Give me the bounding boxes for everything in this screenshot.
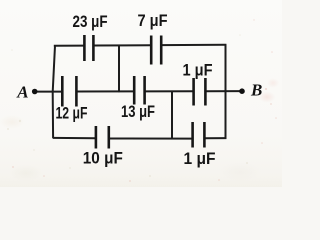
wire middle: 12uF to 13uF <box>77 90 135 92</box>
capacitor C5 1uF middle plates <box>192 78 195 106</box>
wire bottom-right segment <box>204 137 226 139</box>
svg-text:1 μF: 1 μF <box>184 149 216 168</box>
svg-text:23 μF: 23 μF <box>73 12 108 31</box>
svg-text:A: A <box>16 83 28 102</box>
capacitor C3 12uF plates <box>61 76 64 107</box>
wire bottom-middle segment <box>109 138 193 140</box>
svg-text:12 μF: 12 μF <box>56 104 88 123</box>
svg-text:7 μF: 7 μF <box>138 11 168 30</box>
capacitor C2 7uF plates <box>150 36 153 65</box>
svg-text:10 μF: 10 μF <box>83 149 123 168</box>
capacitor C6 10uF plates <box>95 126 98 149</box>
wire middle: 13uF to 1uF <box>145 90 194 92</box>
capacitor C1 23uF plates <box>83 35 86 61</box>
svg-text:1 μF: 1 μF <box>183 61 213 80</box>
wire left vertical <box>53 46 55 139</box>
svg-text:13 μF: 13 μF <box>121 102 155 121</box>
wire junction vertical middle-to-bottom <box>171 91 173 140</box>
wire right vertical <box>225 44 227 139</box>
capacitor C7 1uF bottom plates <box>191 122 194 148</box>
svg-text:B: B <box>250 80 262 99</box>
capacitor C4 13uF plates <box>133 76 136 105</box>
node A dot <box>32 89 38 95</box>
wire middle: 1uF to B <box>205 90 241 92</box>
wire top-right segment <box>161 44 226 46</box>
wire junction vertical top-to-middle <box>118 45 120 92</box>
wire top-middle segment <box>93 44 151 46</box>
wire middle: A to 12uF <box>36 91 62 93</box>
wire top-left segment <box>54 45 84 47</box>
node B dot <box>239 88 245 94</box>
wire bottom-left segment <box>53 137 96 139</box>
